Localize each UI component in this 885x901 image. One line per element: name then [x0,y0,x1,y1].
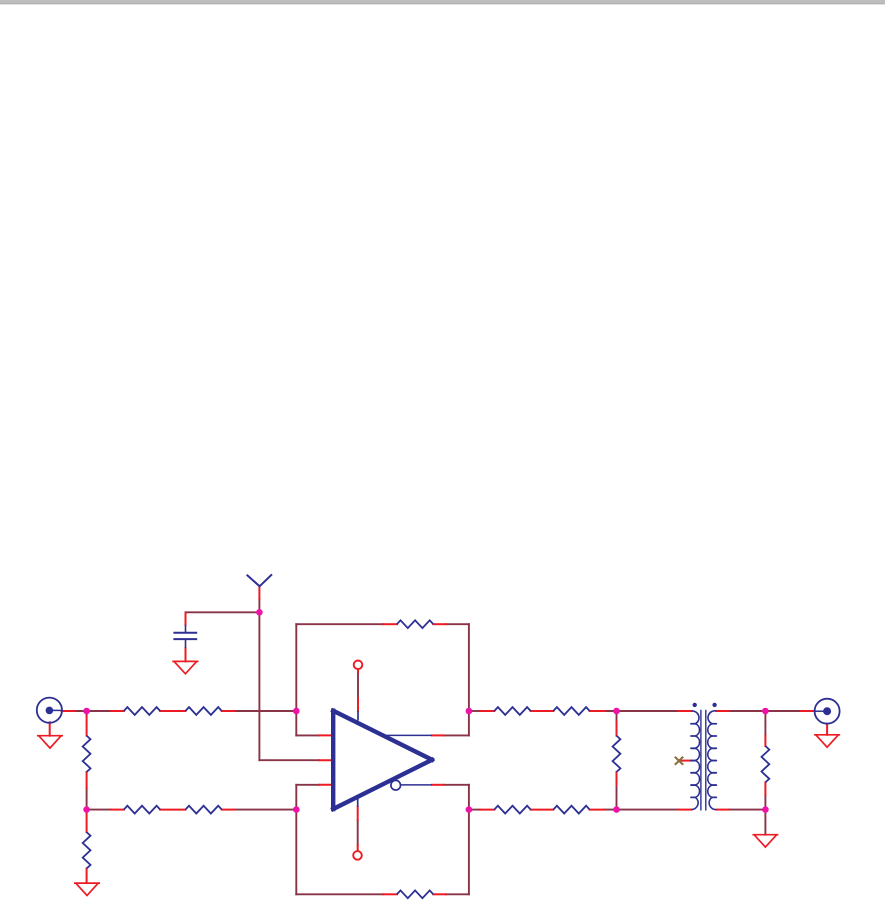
transformer T1 polarity dot primary [693,703,697,707]
pin R4 top [86,812,88,832]
junction dots (magenta) [83,609,768,813]
pin R9 left [383,623,397,625]
pin R10 left [383,893,397,895]
wire bottom box left side [295,785,297,895]
ground at R4 [74,883,100,895]
wire node down to ground [764,810,766,835]
op-amp U1 [333,711,432,809]
wire V- power symbol to op-amp [357,820,359,845]
node J3 antenna [256,609,263,616]
top toolbar gray bar [0,0,885,5]
transformer T1 secondary cusp ticks [712,724,716,798]
resistor R13 [494,806,530,814]
resistor R11 [494,707,530,715]
pin port P2 [801,710,815,712]
wire left column node to R3 [86,711,88,716]
wire top box top edge left [296,623,383,625]
ground at port P1 [37,736,63,748]
pin R12 right [590,710,606,712]
pin R6 right [222,809,235,811]
pin R4 bottom [86,869,88,884]
wire antenna node to capacitor [186,611,260,613]
resistor R1 [124,707,160,715]
wire node to R5 row2 [87,809,112,811]
wire transformer secondary top to node [729,710,766,712]
wire R12 to transformer primary top [605,710,678,712]
op-amp U1 inversion bubble [391,780,401,790]
pin R9 right [433,623,446,625]
node J2 [83,806,90,813]
resistor R12 [553,707,589,715]
wire op-amp out- to box right [444,784,469,786]
wire port P1 to R1 [75,710,112,712]
pin port P1 ground [49,722,51,735]
pin T1 center tap stub [681,760,692,762]
op-amp U1 V- internal stub [357,797,359,807]
pin U1 mid input [319,759,333,761]
node J7 [466,806,473,813]
pin antenna [258,587,260,599]
pin R11 right / R12 left [531,710,554,712]
wire top box left side [295,624,297,735]
wire top box right side [468,624,470,735]
pin U1 out- [432,784,444,786]
wire node to port P2 pin [765,710,801,712]
transformer T1 polarity dot secondary [712,703,716,707]
wire R7 top lead from row1 [616,711,618,722]
wire R3 to row2 node [86,788,88,810]
node J10 [762,708,769,715]
pin R1 left [111,710,124,712]
pin U1 +input [319,734,333,736]
transformer T1 secondary winding [708,711,717,810]
node J11 [762,806,769,813]
pin R1 right / R2 left [160,710,185,712]
wire to op-amp mid input [259,759,319,761]
resistor R4 [83,832,91,868]
pin R3 top [86,716,88,736]
wire bottom box bottom edge right [446,893,469,895]
pin R7 top [616,722,618,736]
resistor R10 (bottom feedback) [397,890,433,898]
pin C1 top [185,613,187,625]
pin R5 right / R6 left [160,809,185,811]
antenna E1 [247,574,272,586]
wire node to R8 top [764,711,766,736]
pin R8 top [764,736,766,746]
resistor R8 [762,746,770,782]
resistor R5 [124,806,160,814]
transformer T1 core [701,710,706,811]
wire op-amp out+ to box right [444,734,469,736]
pin R5 left [111,809,124,811]
pin power symbol top [357,670,359,673]
resistor R9 (top feedback) [397,620,433,628]
wire row1 right: box to R11 [469,710,480,712]
wire net (maroon) [75,599,802,895]
pin U1 -input [319,784,333,786]
wire to op-amp +input [296,734,319,736]
op-amp U1 out+ line [383,734,432,736]
wire R2 to node at top box left [234,710,296,712]
pins (red) [50,587,827,894]
wire bottom box bottom edge left [296,893,383,895]
wire bottom box right side [468,785,470,895]
pin T1 secondary top [716,710,728,712]
power symbol top (V+) [354,661,363,670]
node J1 [83,708,90,715]
wire row2 right: box to R13 [469,809,480,811]
pin R13 right / R14 left [531,809,554,811]
pin R7 bottom [616,772,618,785]
pin R13 left [480,809,495,811]
resistor R2 [185,707,221,715]
wire V+ power symbol to op-amp [357,673,359,699]
capacitor C1 [173,625,197,648]
node J8 [613,708,620,715]
wire R14 to transformer primary bottom [604,809,678,811]
ground at capacitor C1 [172,661,198,673]
node J4 [293,708,300,715]
pin C1 bottom [185,648,187,661]
transformer T1 primary cusp ticks [691,724,695,798]
resistor R14 [553,806,589,814]
pin R2 right [222,710,235,712]
pin T1 secondary bottom [716,809,728,811]
wire to op-amp bottom input [296,784,319,786]
op-amp U1 out- line [401,784,432,786]
pin U1 V- [357,807,359,820]
port P1 (input BNC) [37,698,62,723]
node J9 [613,806,620,813]
node J6 [466,708,473,715]
wire R7 bottom lead to row2 [616,785,618,810]
port P2 (output BNC) [815,699,840,724]
power symbol bottom (V-) [353,851,362,860]
pin port P1 [62,710,75,712]
pin R10 right [433,893,446,895]
resistor R3 [83,736,91,772]
pin T1 primary bottom [678,809,691,811]
pin R11 left [480,710,495,712]
wire transformer secondary bottom to node [729,809,766,811]
resistor R7 [613,736,621,772]
resistor R6 [185,806,221,814]
wire R6 to bottom box left [234,809,296,811]
ground bottom right [752,835,778,847]
transformer T1 primary winding [692,711,700,810]
pin power symbol bottom [357,846,359,851]
pin R8 bottom [764,782,766,795]
pin U1 V+ [357,698,359,711]
wire antenna column down to mid input row [258,599,260,761]
pin U1 out+ [432,734,444,736]
no-connect X on center tap [675,757,683,765]
pin R14 right [590,809,604,811]
pin T1 primary top [678,710,691,712]
op-amp U1 V+ internal stub [357,711,359,721]
pin R3 bottom [86,772,88,788]
ground at port P2 [814,735,840,747]
pin port P2 ground [826,724,828,735]
node J5 [293,806,300,813]
wire R8 bottom to node [764,795,766,810]
wire top box top edge right [446,623,469,625]
